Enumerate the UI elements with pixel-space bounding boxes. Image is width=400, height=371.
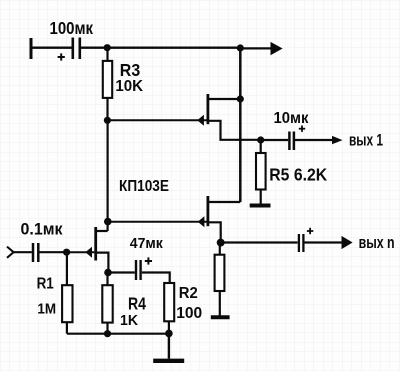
resistor R4 body	[102, 285, 112, 322]
resistor R1 leads	[66, 252, 68, 334]
wire VT2 gate (node F to VT2)	[108, 221, 207, 223]
svg-text:R1: R1	[37, 276, 55, 293]
VT3 drain jog to gate bus	[96, 230, 108, 232]
wire C5 to R2 top	[142, 273, 170, 284]
transistor VT1 channel	[206, 94, 209, 124]
wire C4 to output arrow n	[305, 241, 342, 243]
R1 label	[37, 276, 55, 293]
resistor R2 body	[164, 283, 174, 321]
node H (R1 / VT3 gate junction)	[63, 249, 70, 256]
R3 label	[120, 60, 141, 80]
label vyh n	[359, 234, 395, 252]
input chevron	[7, 247, 14, 258]
output arrow vyh 1	[332, 136, 343, 144]
resistor R3 leads	[106, 48, 108, 121]
node I (VT3 source / R4 / C5 junction)	[104, 269, 112, 277]
resistor R6 body	[215, 255, 225, 291]
VT1 drain lead	[208, 98, 240, 100]
R3 value 10K	[115, 78, 143, 95]
R5 label 6.2K	[269, 165, 327, 185]
svg-text:R4: R4	[128, 294, 146, 314]
VT2 drain lead	[208, 201, 240, 203]
transistor VT2 channel	[206, 196, 209, 226]
node line from node C down (common gate bus)	[106, 120, 108, 231]
node J (R4 bottom)	[104, 330, 111, 337]
C2 polarity plus	[299, 126, 305, 132]
resistor R4 lead top	[106, 273, 108, 286]
wire node E to C2	[261, 139, 289, 141]
wire input to C3	[14, 251, 32, 253]
resistor R4 lead bottom	[106, 323, 108, 334]
svg-text:10K: 10K	[115, 78, 143, 95]
node E (VT1 source / R5 / C10mk junction)	[257, 136, 264, 143]
wire node G to C4	[221, 241, 298, 243]
VT2 source lead	[208, 222, 221, 242]
wire node I to C5	[108, 271, 135, 273]
transistor type label KP103E	[119, 178, 169, 195]
node G (VT2 source junction)	[217, 239, 225, 247]
transistor VT3 channel	[94, 227, 97, 261]
svg-text:1M: 1M	[37, 300, 56, 317]
wire terminal to C1	[31, 47, 72, 49]
VT1 gate arrowhead	[197, 115, 204, 126]
svg-text:1K: 1K	[120, 312, 138, 329]
C1 polarity plus	[58, 53, 65, 60]
node A (R3 top junction)	[104, 44, 111, 51]
vertical rail node B to VT2 drain	[239, 48, 242, 202]
svg-text:R2: R2	[179, 285, 198, 302]
R2 label	[179, 285, 198, 302]
node D (VT1 drain on rail)	[237, 95, 244, 102]
C3 value label 0.1mk	[21, 221, 64, 239]
C5 polarity plus	[145, 257, 152, 264]
supply output arrow	[271, 42, 283, 55]
VT3 source lead	[96, 253, 109, 273]
svg-text:R5 6.2K: R5 6.2K	[269, 165, 327, 185]
bottom rail wire	[67, 333, 169, 335]
R2 value 100	[176, 305, 202, 322]
capacitor C4 plates (vyh n)	[299, 234, 304, 252]
node K (R2 bottom / ground stem)	[165, 330, 173, 338]
VT2 gate arrowhead	[198, 216, 205, 227]
wire C1 to node A	[81, 47, 107, 49]
VT3 gate arrowhead	[85, 247, 92, 258]
node F (VT2 gate tap)	[104, 218, 112, 226]
label vyh 1	[349, 131, 383, 149]
capacitor C1 100mk plates	[73, 38, 80, 60]
output arrow vyh n	[342, 236, 353, 249]
svg-text:вых n: вых n	[359, 234, 395, 252]
wire top rail node A to node B	[107, 47, 240, 49]
svg-text:100: 100	[176, 305, 202, 322]
input terminal top left	[30, 38, 33, 59]
wire C2 to output arrow 1	[295, 139, 332, 141]
svg-text:R3: R3	[120, 60, 141, 80]
svg-text:47мк: 47мк	[130, 235, 163, 252]
R4 value 1K	[120, 312, 138, 329]
node B (top rail / VT1 rail junction)	[237, 44, 244, 51]
wire VT3 gate (node H to VT3)	[67, 251, 95, 253]
ground under R5	[250, 204, 271, 208]
capacitor C2 10mk plates	[289, 132, 294, 151]
resistor R3 body	[103, 61, 112, 98]
svg-text:КП103Е: КП103Е	[119, 178, 169, 195]
ground under R6	[211, 315, 230, 319]
resistor R5 body	[256, 153, 266, 190]
svg-text:0.1мк: 0.1мк	[21, 221, 64, 239]
ground main bar	[153, 359, 184, 363]
R4 label	[128, 294, 146, 314]
wire VT1 gate (node C to VT1)	[107, 119, 206, 121]
capacitor C3 0.1mk plates	[33, 243, 38, 262]
C4 polarity plus	[307, 228, 313, 234]
wire C3 to node H	[40, 251, 67, 253]
resistor R6 leads (VT2 source resistor)	[219, 243, 221, 316]
R1 value 1M	[37, 300, 56, 317]
ground stem main	[168, 333, 170, 358]
wire node B to supply arrow	[240, 47, 270, 49]
C5 value label 47mk	[130, 235, 163, 252]
resistor R1 body	[62, 285, 72, 322]
VT1 source lead	[208, 121, 261, 140]
C2 value label 10mk	[274, 110, 310, 127]
resistor R5 leads	[260, 140, 262, 204]
svg-text:10мк: 10мк	[274, 110, 310, 127]
svg-text:100мк: 100мк	[50, 18, 94, 38]
node C (R3 bottom junction)	[104, 117, 111, 124]
svg-text:вых 1: вых 1	[349, 131, 383, 149]
resistor R2 lead bottom	[168, 321, 170, 333]
C1 value label 100mk	[50, 18, 94, 38]
capacitor C5 47mk plates	[136, 260, 141, 280]
